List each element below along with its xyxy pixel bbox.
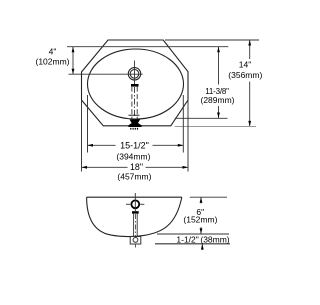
tailpiece centerline below — [135, 244, 137, 248]
tailpiece circle — [133, 238, 138, 243]
dimension 6in vertical with arrows — [200, 197, 202, 203]
dimension 14in vertical line with arrows — [249, 40, 251, 59]
pipe centerline (side, dashed) — [134, 214, 136, 236]
bowl bottom extension line A — [157, 233, 229, 235]
dimension 1-1/2 up arrow below line B — [201, 244, 203, 250]
svg-text:(289mm): (289mm) — [200, 95, 234, 105]
drain hidden dashes below spool — [130, 128, 132, 130]
side circle vertical centerline — [134, 193, 136, 211]
extension line ellipse right down — [182, 95, 184, 153]
extension line left octagon edge down — [81, 100, 83, 172]
side view rim line — [87, 196, 182, 198]
overflow band (plan) — [131, 84, 139, 87]
rim extension line right — [190, 196, 227, 198]
faucet hole inner circle — [130, 70, 139, 79]
dimension 4in vertical line with arrows — [72, 47, 74, 74]
faucet hole outer circle — [128, 68, 140, 80]
countertop octagon outline (plan view) — [82, 40, 189, 126]
faucet horizontal centerline / 4in extension line — [69, 73, 143, 75]
extension line right octagon edge down — [187, 100, 189, 172]
faucet vertical centerline — [134, 61, 136, 85]
svg-text:14": 14" — [239, 59, 251, 69]
svg-text:(38mm): (38mm) — [200, 234, 229, 244]
dimension 15-1/2 horizontal line with arrows — [88, 144, 116, 146]
drain fitting black spool (plan) — [128, 119, 141, 127]
side circle left tick — [126, 203, 130, 205]
extension line bottom edge to right — [175, 125, 256, 127]
side circle right tick — [140, 203, 144, 205]
overflow band (side) — [132, 211, 139, 213]
overflow pipe lines (side) — [133, 214, 135, 237]
drain bottom extension line B — [155, 243, 230, 245]
dimension 18in horizontal line with arrows — [82, 166, 128, 168]
overflow pipe hidden lines (plan, dashed) — [131, 87, 133, 119]
reference extension line (back of bowl) — [67, 46, 228, 48]
svg-text:(102mm): (102mm) — [35, 56, 69, 66]
svg-text:18": 18" — [130, 162, 143, 172]
svg-text:(394mm): (394mm) — [116, 152, 150, 162]
extension line ellipse left down — [87, 95, 89, 153]
svg-text:(152mm): (152mm) — [183, 214, 217, 224]
dimension 11-3/8 vertical line with arrows — [218, 47, 220, 85]
extension line for 11-3/8 bottom — [175, 117, 228, 119]
overflow flange tick (plan) — [129, 114, 140, 116]
overflow pipe centerline (plan, dashed) — [134, 87, 136, 118]
svg-text:1-1/2": 1-1/2" — [176, 234, 198, 244]
bowl profile curve (side view) — [87, 197, 182, 236]
overflow inlet circle (side view) — [131, 200, 139, 208]
svg-text:(356mm): (356mm) — [228, 70, 262, 80]
drain tailpiece rectangle (side) — [130, 237, 141, 245]
top edge extension line (right) — [165, 39, 259, 41]
svg-text:(457mm): (457mm) — [117, 172, 151, 182]
bowl ellipse (plan view) — [88, 49, 184, 119]
svg-text:4": 4" — [49, 47, 57, 57]
svg-text:15-1/2": 15-1/2" — [120, 141, 149, 151]
